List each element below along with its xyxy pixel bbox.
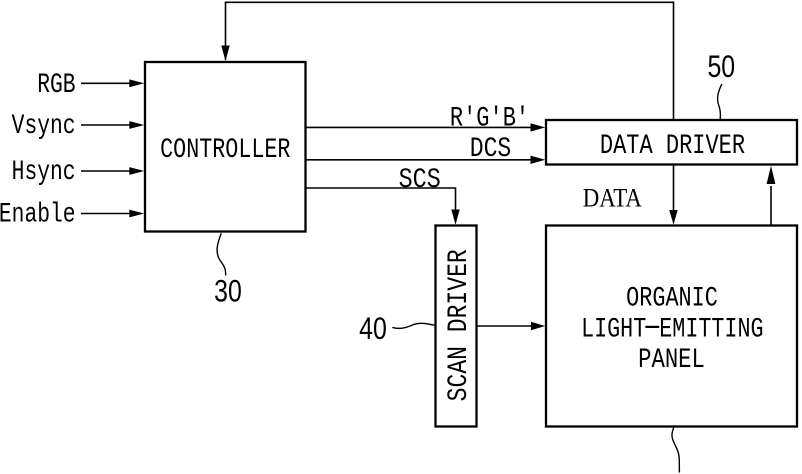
- svg-text:PANEL: PANEL: [638, 344, 705, 376]
- svg-text:RGB: RGB: [37, 71, 75, 101]
- svg-text:LIGHT EMITTING: LIGHT EMITTING: [581, 314, 763, 345]
- svg-text:CONTROLLER: CONTROLLER: [160, 135, 290, 166]
- svg-text:50: 50: [707, 49, 735, 85]
- svg-text:Hsync: Hsync: [12, 158, 76, 188]
- svg-text:DATA: DATA: [583, 184, 642, 213]
- svg-text:Vsync: Vsync: [12, 112, 76, 142]
- svg-text:DATA DRIVER: DATA DRIVER: [600, 131, 745, 162]
- svg-text:Enable: Enable: [0, 200, 76, 230]
- svg-text:SCAN DRIVER: SCAN DRIVER: [443, 249, 474, 401]
- svg-text:SCS: SCS: [399, 164, 441, 195]
- svg-text:ORGANIC: ORGANIC: [626, 283, 718, 314]
- svg-text:40: 40: [359, 311, 387, 347]
- svg-text:30: 30: [214, 274, 242, 310]
- svg-text:R'G'B': R'G'B': [450, 103, 529, 134]
- svg-text:DCS: DCS: [470, 133, 512, 164]
